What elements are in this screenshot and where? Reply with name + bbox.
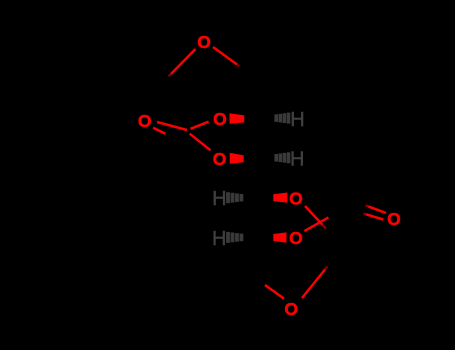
svg-text:H: H [212,188,226,210]
svg-text:H: H [290,109,304,131]
svg-text:H: H [290,148,304,170]
svg-text:O: O [213,149,227,169]
svg-text:O: O [213,109,227,129]
svg-text:O: O [138,111,152,131]
svg-text:O: O [289,189,303,209]
svg-text:H: H [212,228,226,250]
svg-text:O: O [387,209,401,229]
svg-text:O: O [284,299,298,319]
svg-text:O: O [289,228,303,248]
svg-text:O: O [197,32,211,52]
